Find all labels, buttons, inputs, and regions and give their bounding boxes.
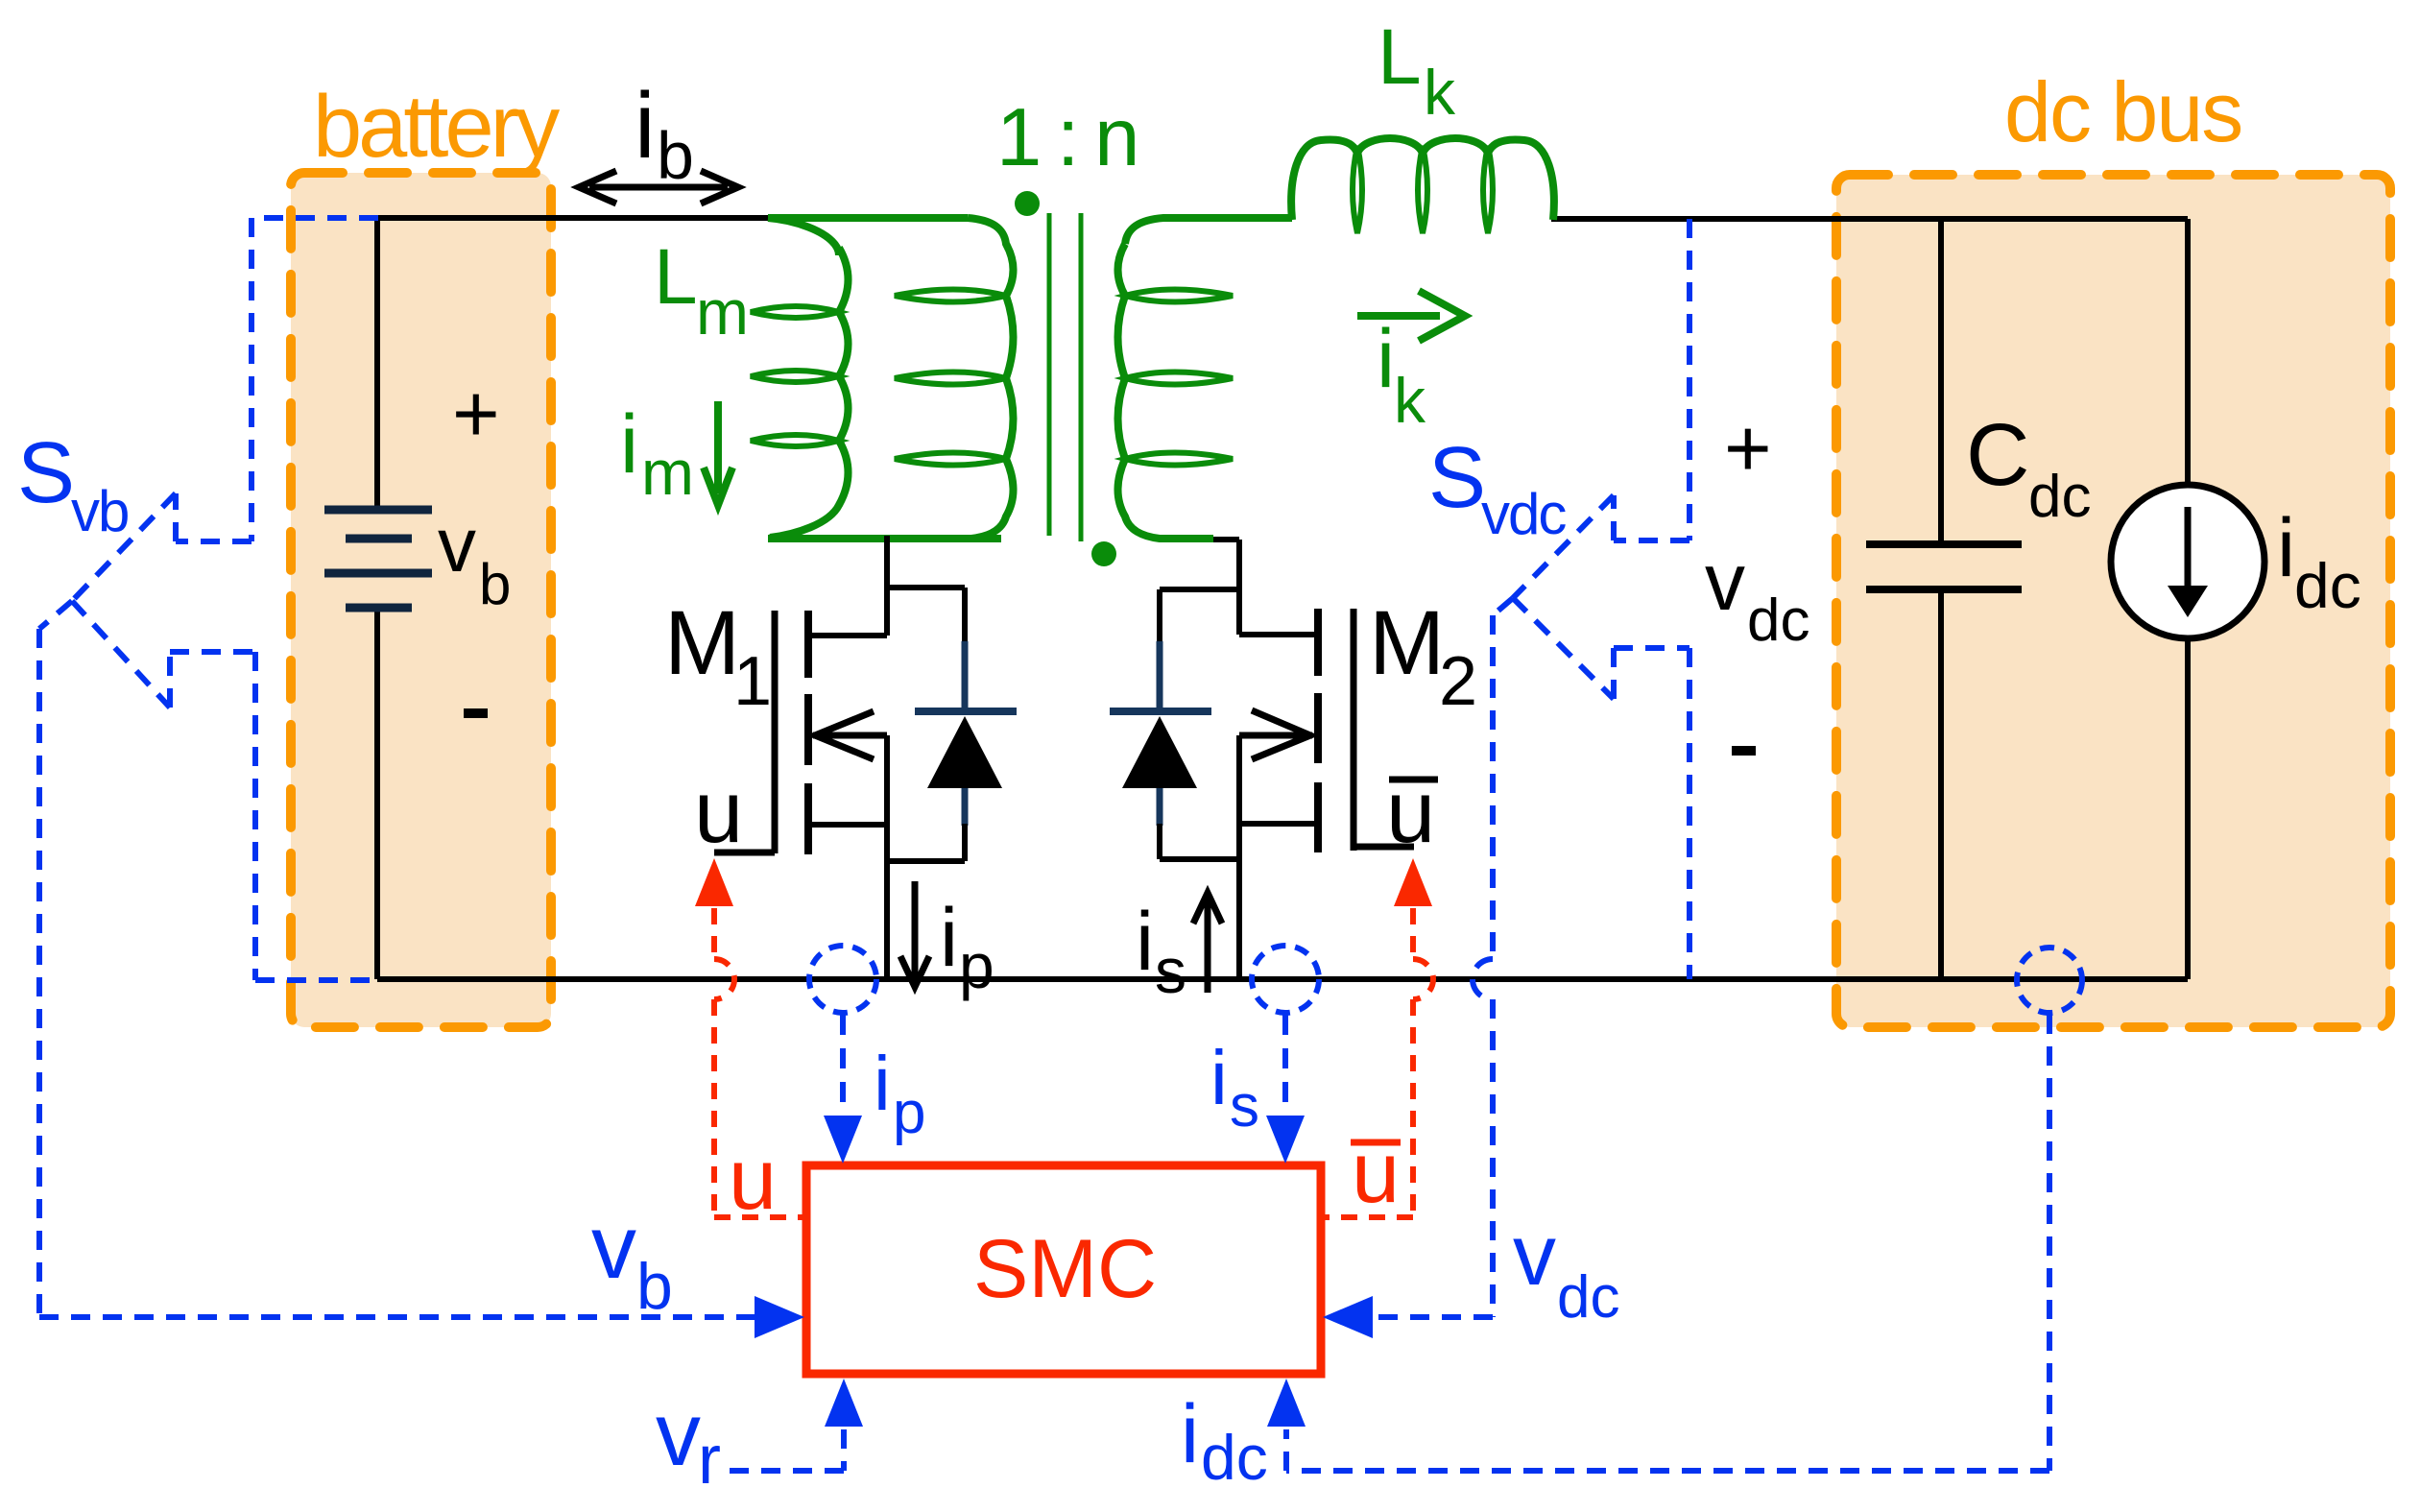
SMC controller box (806, 1165, 1321, 1374)
M1 source wires (811, 735, 887, 979)
u-bar label red (1351, 1125, 1401, 1221)
svg-text:M: M (664, 592, 740, 694)
wire green top primary (768, 214, 968, 222)
wire bottom rail (377, 976, 2188, 982)
i_k arrow (1357, 291, 1465, 341)
svg-text:i: i (635, 73, 656, 178)
wire i_s to SMC (1266, 1015, 1305, 1164)
svg-text:v: v (656, 1383, 701, 1484)
i_s arrow at M2 source (1193, 893, 1222, 993)
svg-text:+: + (1724, 403, 1772, 494)
i_b label (635, 73, 694, 193)
plus label vdc (1724, 403, 1772, 494)
gate drive u-bar red arrow (1394, 858, 1432, 906)
M2 gate signal label u-bar (1386, 763, 1438, 861)
svg-text:1: 1 (733, 643, 772, 720)
i_m label (620, 398, 694, 508)
battery value label v_b (438, 502, 511, 616)
wire dc bus right vertical (2185, 219, 2191, 979)
svg-text:i: i (1136, 896, 1154, 988)
svg-text:v: v (1705, 537, 1745, 627)
svg-text:b: b (479, 552, 511, 616)
M1 gate bar (772, 611, 779, 853)
sensor circle i_p (809, 946, 876, 1013)
svg-text:u: u (694, 763, 743, 861)
sensor Svdc loop (1513, 219, 1689, 979)
svg-text:SMC: SMC (973, 1223, 1157, 1315)
inductor Lk leakage (1291, 138, 1554, 233)
transformer secondary winding (1118, 218, 1293, 539)
svg-text:r: r (698, 1422, 721, 1499)
svg-text:C: C (1966, 406, 2029, 504)
i_m arrow (704, 401, 732, 505)
i_s label black (1136, 896, 1186, 1006)
sensor circle i_s (1252, 946, 1319, 1013)
M2 channel bar (1314, 609, 1322, 852)
wire gate drive u (714, 908, 803, 1217)
i_s label blue (1210, 1035, 1259, 1140)
svg-text:dc: dc (1201, 1422, 1268, 1493)
inductor Lm magnetizing (751, 218, 849, 538)
i_dc label black (2277, 502, 2361, 621)
M2 gate bar (1351, 609, 1357, 851)
svg-text:battery: battery (313, 78, 560, 176)
svg-text:dc: dc (1747, 588, 1809, 654)
svg-text:p: p (893, 1080, 925, 1146)
battery dashed box (291, 173, 551, 1027)
i_p label blue (874, 1041, 925, 1146)
svg-text:b: b (657, 118, 694, 193)
svg-text:m: m (641, 437, 694, 508)
svg-text:dc: dc (2028, 464, 2091, 530)
secondary dot (1091, 541, 1116, 566)
minus label vdc (1732, 746, 1756, 756)
wire i_dc feedback to SMC (1267, 1015, 2049, 1471)
wire gate drive u-bar (1325, 908, 1433, 1217)
battery plus label (452, 369, 500, 460)
wire Svdc output to SMC v_dc (1323, 598, 1513, 1338)
dc bus dashed box (1836, 175, 2390, 1027)
svg-text:vb: vb (71, 479, 128, 543)
svg-text:u: u (729, 1132, 777, 1228)
i_dc label blue (1181, 1388, 1268, 1493)
M1 channel bar (804, 611, 812, 854)
svg-text:m: m (696, 276, 749, 348)
svg-text:v: v (591, 1196, 636, 1297)
battery label (313, 78, 560, 176)
M1 gate lead (714, 850, 775, 856)
wire top battery to transformer (377, 215, 768, 221)
svg-text:i: i (620, 398, 638, 491)
svg-text:i: i (1181, 1388, 1199, 1480)
svg-text:i: i (2277, 502, 2295, 594)
svg-text:s: s (1155, 935, 1186, 1006)
M1 drain wire (811, 536, 887, 636)
transformer primary winding (895, 218, 1014, 539)
svg-text:dc bus: dc bus (2004, 64, 2241, 159)
Svdc label (1428, 430, 1566, 546)
u label red (729, 1132, 777, 1228)
svg-text:v: v (438, 502, 476, 588)
svg-text:u: u (1386, 763, 1435, 861)
svg-text:S: S (17, 425, 75, 521)
battery minus label (464, 708, 488, 718)
i_b double arrow (579, 171, 738, 204)
svg-text:2: 2 (1439, 643, 1477, 720)
battery cell v_b (324, 218, 432, 979)
Lm value label (654, 233, 749, 348)
M1 label (664, 592, 772, 720)
M2 label (1369, 592, 1477, 720)
v_b label blue (591, 1196, 673, 1323)
svg-text:k: k (1394, 365, 1426, 436)
svg-text:dc: dc (1557, 1264, 1619, 1331)
i_k label (1377, 313, 1426, 436)
M2 source wires (1239, 735, 1318, 979)
svg-text:v: v (1513, 1208, 1556, 1304)
svg-text:dc: dc (2294, 550, 2361, 621)
svg-text:vdc: vdc (1481, 482, 1566, 546)
diode D2 body of M2 (1110, 589, 1239, 859)
wire Svb output to SMC v_b (39, 601, 804, 1338)
wire top right Lk to dc bus (1551, 216, 2188, 222)
svg-text:L: L (654, 233, 698, 321)
i_p arrow at M1 source (900, 881, 929, 987)
svg-text:u: u (1352, 1125, 1400, 1221)
svg-text:i: i (940, 892, 958, 984)
gate drive u red arrow (695, 858, 733, 906)
svg-text:S: S (1428, 430, 1486, 526)
capacitor Cdc (1866, 219, 2022, 979)
Svb label (17, 425, 128, 543)
svg-text:s: s (1230, 1073, 1259, 1140)
v_r label blue (656, 1383, 721, 1499)
svg-text:i: i (1377, 313, 1395, 405)
M1 gate signal label u (694, 763, 743, 861)
svg-text:M: M (1369, 592, 1445, 694)
transformer core (1049, 213, 1081, 541)
svg-text:L: L (1378, 13, 1422, 101)
svg-text:i: i (1210, 1035, 1228, 1120)
svg-text:+: + (452, 369, 500, 460)
svg-text:1 : n: 1 : n (996, 92, 1136, 183)
sensor circle i_dc on dc bus (2017, 948, 2082, 1013)
primary dot (1015, 191, 1040, 216)
dc bus label (2004, 64, 2241, 159)
v_dc label blue (1513, 1208, 1619, 1331)
M2 drain wire (1213, 540, 1316, 635)
svg-text:i: i (874, 1041, 891, 1126)
diode D1 body of M1 (887, 588, 1017, 861)
M1 body arrow (813, 711, 887, 759)
wire green bottom primary (768, 535, 1001, 542)
M2 gate lead (1354, 844, 1414, 851)
svg-text:k: k (1424, 57, 1456, 128)
Lk value label (1378, 13, 1456, 128)
wire i_p to SMC (824, 1015, 862, 1164)
wire v_r input to SMC (726, 1379, 863, 1471)
svg-text:p: p (959, 930, 994, 1001)
ratio label 1 : n (996, 92, 1136, 183)
Cdc value label (1966, 406, 2091, 530)
i_p label black (940, 892, 994, 1001)
current source idc (2111, 485, 2264, 638)
svg-text:b: b (636, 1250, 673, 1323)
M2 body arrow (1239, 710, 1312, 759)
sensor Svb loop around battery (72, 218, 380, 980)
v_dc label black (1705, 537, 1809, 654)
